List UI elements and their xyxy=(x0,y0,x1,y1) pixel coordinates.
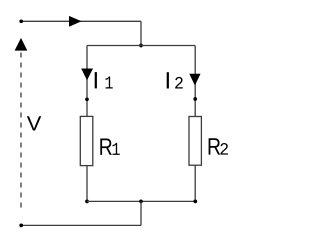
label subscript 2 of R2 xyxy=(220,143,228,155)
wire: top rail of parallel network xyxy=(87,45,195,47)
arrow: current I2 direction (down) xyxy=(189,74,200,86)
source V: arrowhead (up) of voltage reference line xyxy=(15,38,28,51)
resistor R1 body xyxy=(80,116,93,165)
node: junction dot bottom-left of rail xyxy=(85,200,89,204)
wire: vertical drop from top lead to top rail xyxy=(140,21,142,45)
label V (source voltage) xyxy=(27,116,41,130)
label subscript 1 of I1 xyxy=(106,77,113,89)
wire: left branch upper segment to resistor R1 xyxy=(86,46,88,117)
source V: dashed reference line xyxy=(20,53,22,208)
wire: right branch upper segment to resistor R2 xyxy=(194,46,196,117)
node: dot on right branch above R2 xyxy=(193,97,197,101)
node: junction dot on bottom rail xyxy=(139,200,143,204)
arrow: current I1 direction (down) xyxy=(81,69,93,81)
arrow: total current direction on top lead xyxy=(69,16,82,27)
wire: bottom lead back to source V xyxy=(21,224,141,226)
node: source bottom terminal dot xyxy=(19,224,23,228)
wire: right branch lower segment from R2 to bottom rail xyxy=(194,165,196,201)
wire: vertical drop from bottom rail to bottom lead xyxy=(140,201,142,225)
wire: top lead from source V to node xyxy=(21,20,141,22)
wire: left branch lower segment from R1 to bottom rail xyxy=(86,166,88,202)
node: junction dot bottom-right of rail xyxy=(193,200,197,204)
node: dot on left branch above R1 xyxy=(85,97,89,101)
label R of resistor R1 xyxy=(100,139,112,155)
node: junction dot on top rail xyxy=(139,44,143,48)
label subscript 1 of R1 xyxy=(113,143,120,155)
label I of current I1 xyxy=(95,72,97,88)
node: source top terminal dot xyxy=(19,19,23,23)
label R of resistor R2 xyxy=(209,138,221,154)
label subscript 2 of I2 xyxy=(175,77,183,89)
resistor R2 body xyxy=(189,117,201,166)
label I of current I2 xyxy=(167,72,169,88)
wire: bottom rail of parallel network xyxy=(87,200,195,202)
